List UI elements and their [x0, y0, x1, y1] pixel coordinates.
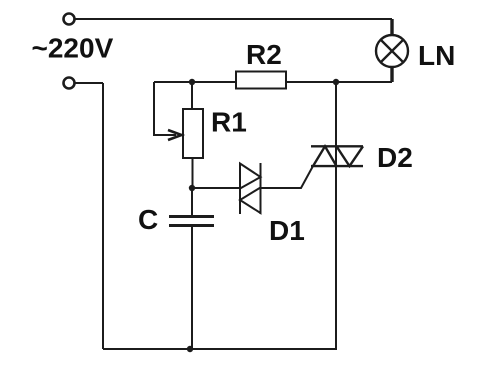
wire triac vertical	[335, 82, 337, 349]
node junction bottom	[187, 346, 193, 352]
svg-text:~220V: ~220V	[32, 33, 114, 64]
wiper arrowhead	[168, 130, 182, 140]
wire R1 bottom lead	[192, 158, 194, 188]
lamp LN	[376, 35, 408, 67]
potentiometer R1	[183, 109, 203, 158]
wire lamp bottom lead	[390, 67, 393, 82]
wire wiper branch	[154, 82, 176, 135]
wire bottom horizontal	[103, 348, 337, 350]
node junction R1 top	[189, 79, 195, 85]
svg-text:R2: R2	[246, 39, 282, 70]
wire lamp top lead	[390, 19, 393, 35]
wire lamp to R2	[286, 81, 392, 83]
terminal T1	[64, 14, 75, 25]
svg-text:D2: D2	[377, 142, 413, 173]
triac D2	[311, 146, 363, 166]
diac D1	[240, 163, 261, 214]
svg-text:R1: R1	[211, 107, 247, 138]
wire top horizontal	[75, 18, 392, 20]
resistor R2	[236, 72, 286, 89]
terminal T2	[64, 78, 75, 89]
node junction triac branch	[333, 79, 339, 85]
wire diac to gate	[261, 166, 314, 188]
svg-text:LN: LN	[418, 40, 455, 71]
capacitor C	[169, 217, 214, 226]
wire left vertical	[102, 83, 104, 349]
wire cap bottom lead	[191, 227, 193, 349]
wire left terminal stub	[75, 82, 103, 84]
svg-text:D1: D1	[269, 215, 305, 246]
node junction cap/diac	[189, 185, 195, 191]
wire R1 top lead	[191, 82, 193, 109]
wire cap top lead	[191, 188, 193, 215]
wire R2 left	[154, 81, 236, 83]
svg-text:C: C	[138, 204, 158, 235]
wire to diac	[192, 187, 240, 189]
